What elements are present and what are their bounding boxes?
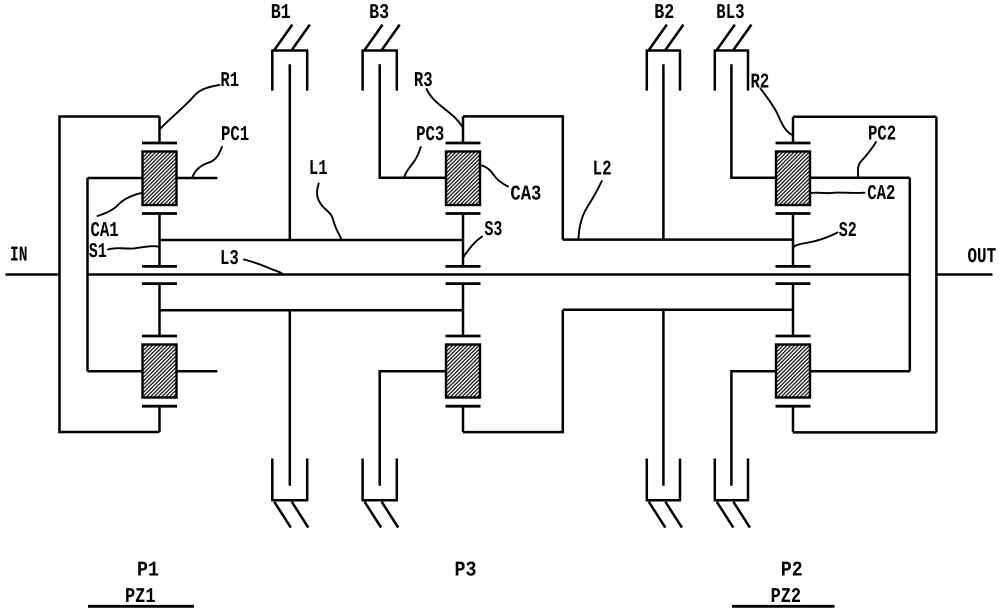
wire R2 bottom line xyxy=(793,431,936,434)
brake BL3 lower diagonal 1 xyxy=(717,502,734,528)
brake BL3 lower left arm xyxy=(714,459,717,501)
wire carrier CA1 vertical xyxy=(86,178,89,371)
leader S2 xyxy=(793,233,838,250)
planet P2 upper pinion block xyxy=(776,152,810,206)
brake BL3 diagonal 1 xyxy=(717,25,735,50)
wire main shaft L3 xyxy=(88,273,910,276)
planet P1 upper pinion block xyxy=(143,152,177,206)
wire carrier PC1 upper left xyxy=(88,177,143,180)
svg-text:L3: L3 xyxy=(220,248,239,271)
wire S2 sun vertical lower xyxy=(792,284,795,336)
wire R2 top line xyxy=(793,116,936,119)
wire R3 top line to L2 riser xyxy=(463,115,563,118)
svg-text:P3: P3 xyxy=(455,560,477,583)
brake B2 top bar xyxy=(646,49,681,52)
svg-text:B1: B1 xyxy=(271,2,291,25)
svg-text:P1: P1 xyxy=(137,560,159,583)
wire OUT shaft xyxy=(936,273,992,276)
brake B2 lower diagonal 2 xyxy=(665,502,682,528)
leader PC1 xyxy=(193,147,223,177)
brake B3 diagonal 1 xyxy=(365,25,383,50)
svg-text:R1: R1 xyxy=(220,70,239,93)
wire P3 lower ring vertical xyxy=(462,406,465,432)
brake B1 top bar xyxy=(271,49,308,52)
wire carrier PC3 lower (bottom brake to P3 lower block) xyxy=(380,371,446,486)
wire carrier PC1 lower left xyxy=(88,370,143,373)
brake BL3 top bar xyxy=(714,49,749,52)
wire carrier PC2 upper right xyxy=(811,177,910,180)
node P2 lower bottom bar xyxy=(776,405,811,408)
wire L2 top line (to S2) xyxy=(563,238,793,241)
brake B2 diagonal 1 xyxy=(649,25,667,50)
wire B1 shaft to drum L1 xyxy=(289,64,292,240)
wire R1 top line xyxy=(58,115,159,118)
svg-text:IN: IN xyxy=(10,244,28,267)
brake B3 lower left arm xyxy=(361,459,364,501)
wire S1 sun vertical lower xyxy=(158,284,161,336)
node P1 upper top bar xyxy=(142,142,177,145)
wire carrier PC2 lower right xyxy=(811,370,910,373)
node S3 sun top bar xyxy=(446,265,481,268)
node S2 sun top bar xyxy=(776,265,811,268)
svg-text:CA3: CA3 xyxy=(510,183,541,206)
wire B3 shaft to carrier PC3 xyxy=(380,64,446,178)
brake B1 left arm xyxy=(271,51,274,91)
wire carrier PC1 lower right stub xyxy=(177,370,218,373)
leader PC2 xyxy=(858,142,876,178)
brake B2 right arm xyxy=(679,51,682,91)
wire L2 riser top xyxy=(562,115,565,239)
svg-text:S1: S1 xyxy=(89,241,107,264)
brake BL3 lower diagonal 2 xyxy=(733,502,750,528)
brake B3 top bar xyxy=(362,49,398,52)
svg-text:B3: B3 xyxy=(369,2,389,25)
node P2 upper top bar xyxy=(776,142,811,145)
leader CA1 xyxy=(98,193,143,216)
svg-text:CA1: CA1 xyxy=(91,220,119,243)
brake B1 lower diagonal 1 xyxy=(274,502,291,528)
wire S3 sun vertical upper xyxy=(462,214,465,267)
leader L1 xyxy=(317,184,341,239)
node P1 upper bottom bar xyxy=(142,212,177,215)
brake B3 lower diagonal 1 xyxy=(365,502,382,528)
svg-text:S3: S3 xyxy=(484,219,502,242)
wire carrier PC1 upper right stub xyxy=(177,177,218,180)
wire R2 wrap vertical xyxy=(935,117,938,433)
node S3 sun bottom bar xyxy=(446,282,481,285)
wire R1 bottom wrap line xyxy=(58,431,159,434)
wire S3 sun vertical lower xyxy=(462,284,465,336)
wire S1 sun vertical upper xyxy=(158,214,161,267)
node P1 upper ring vertical xyxy=(158,117,161,144)
brake BL3 lower bottom bar xyxy=(714,499,749,502)
node S1 sun top bar xyxy=(142,265,177,268)
svg-text:L2: L2 xyxy=(593,159,612,182)
leader R1 xyxy=(161,85,220,129)
brake B3 lower right arm xyxy=(396,459,399,501)
brake BL3 diagonal 2 xyxy=(733,25,751,50)
wire carrier PC2 vertical (joins main shaft) xyxy=(909,178,912,371)
node P2 upper bottom bar xyxy=(776,212,811,215)
planet P3 lower pinion block xyxy=(446,345,480,398)
node P2 lower top bar xyxy=(776,335,811,338)
underline PZ2 xyxy=(732,605,835,608)
svg-text:PC2: PC2 xyxy=(868,123,896,146)
svg-text:OUT: OUT xyxy=(968,246,997,269)
svg-text:CA2: CA2 xyxy=(867,183,895,206)
brake B3 left arm xyxy=(361,51,364,91)
leader R3 xyxy=(427,89,463,127)
svg-text:PZ2: PZ2 xyxy=(771,586,802,609)
planet P1 lower pinion block xyxy=(143,345,177,398)
leader CA3 xyxy=(482,165,508,186)
wire B2 lower shaft to drum L2 bottom xyxy=(662,310,665,486)
wire drum L1 top (S1 to S3) xyxy=(160,239,464,242)
node P3 lower top bar xyxy=(446,335,481,338)
wire P1 lower ring vertical xyxy=(158,406,161,432)
brake B2 diagonal 2 xyxy=(665,25,683,50)
wire S2 sun vertical upper xyxy=(792,214,795,267)
wire P2 lower ring vertical xyxy=(792,406,795,432)
leader L3 xyxy=(244,260,282,274)
svg-text:S2: S2 xyxy=(839,220,857,243)
node P2 upper ring vertical xyxy=(792,117,795,143)
node P3 lower bottom bar xyxy=(446,405,481,408)
leader PC3 xyxy=(404,147,421,178)
brake BL3 right arm xyxy=(747,51,750,91)
brake B3 lower diagonal 2 xyxy=(382,502,399,528)
planet P3 upper pinion block xyxy=(446,152,480,206)
wire left wrap vertical (ring R1 drum) xyxy=(58,115,61,433)
leader CA2 xyxy=(811,192,865,195)
node P3 upper ring vertical xyxy=(462,116,465,143)
svg-text:PC1: PC1 xyxy=(221,124,249,147)
wire R3 bottom line xyxy=(463,431,563,434)
svg-text:PC3: PC3 xyxy=(416,124,444,147)
svg-text:P2: P2 xyxy=(781,560,803,583)
svg-text:BL3: BL3 xyxy=(716,2,744,25)
node S2 sun bottom bar xyxy=(776,282,811,285)
brake B2 left arm xyxy=(646,51,649,91)
leader L2 xyxy=(579,181,602,238)
wire drum L1 bottom xyxy=(160,309,464,312)
node S1 sun bottom bar xyxy=(142,282,177,285)
wire IN shaft xyxy=(6,273,60,276)
wire L2 bottom line (to S2) xyxy=(563,309,793,312)
leader R2 xyxy=(761,89,793,135)
svg-text:B2: B2 xyxy=(654,2,674,25)
wire carrier PC2 lower (bottom brake to P2 lower block) xyxy=(731,371,776,486)
brake B2 lower bottom bar xyxy=(646,499,681,502)
leader S1 xyxy=(108,246,159,249)
underline PZ1 xyxy=(88,605,194,608)
node P1 lower top bar xyxy=(142,335,177,338)
brake B1 lower bottom bar xyxy=(271,499,308,502)
planet P2 lower pinion block xyxy=(776,345,810,398)
wire L2 riser bottom xyxy=(562,310,565,433)
brake BL3 lower right arm xyxy=(747,459,750,501)
brake B1 lower right arm xyxy=(306,459,309,501)
brake B1 right arm xyxy=(306,51,309,91)
brake B2 lower diagonal 1 xyxy=(649,502,666,528)
brake B3 right arm xyxy=(396,51,399,91)
node P3 upper top bar xyxy=(446,142,481,145)
brake B3 lower bottom bar xyxy=(362,499,398,502)
svg-text:PZ1: PZ1 xyxy=(125,586,156,609)
brake B2 lower right arm xyxy=(679,459,682,501)
svg-text:R2: R2 xyxy=(751,72,770,95)
brake B1 lower left arm xyxy=(271,459,274,501)
brake B3 diagonal 2 xyxy=(382,25,400,50)
wire BL3 shaft to carrier PC2 xyxy=(731,64,776,178)
wire B1 lower shaft to drum L1 bottom xyxy=(289,310,292,486)
brake B1 diagonal 2 xyxy=(292,25,310,50)
wire B2 shaft to drum L2 xyxy=(662,64,665,239)
node P3 upper bottom bar xyxy=(446,212,481,215)
svg-text:L1: L1 xyxy=(309,158,328,181)
brake B1 diagonal 1 xyxy=(274,25,292,50)
brake B1 lower diagonal 2 xyxy=(292,502,309,528)
brake BL3 left arm xyxy=(714,51,717,91)
leader S3 xyxy=(464,237,482,257)
brake B2 lower left arm xyxy=(646,459,649,501)
svg-text:R3: R3 xyxy=(414,70,433,93)
node P1 lower bottom bar xyxy=(142,405,177,408)
